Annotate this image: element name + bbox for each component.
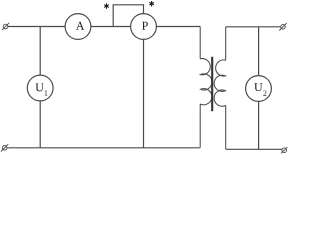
ammeter A (65, 14, 91, 40)
wattmeter voltage-coil bracket (113, 5, 143, 27)
voltmeter U1 (27, 75, 53, 101)
polarity mark right (149, 1, 154, 6)
bottom-right rail (226, 148, 282, 150)
wire secondary top to terminal (226, 26, 281, 28)
label U1 subscript (45, 90, 48, 95)
terminal bottom-right (281, 147, 287, 153)
wire U2 branch top (258, 27, 260, 76)
wire ammeter to wattmeter (91, 26, 130, 28)
wire U2 bottom (258, 101, 260, 149)
transformer core (211, 57, 213, 111)
wire wattmeter voltage coil to bottom rail (143, 39, 145, 148)
label P (142, 22, 148, 30)
terminal top-right (279, 23, 286, 30)
transformer secondary winding L2 (214, 27, 226, 150)
transformer primary winding L1 (200, 27, 212, 148)
wire top-left to ammeter (8, 26, 65, 28)
wire wattmeter to transformer primary (157, 26, 201, 28)
terminal top-left (2, 23, 9, 30)
bottom-left rail (7, 147, 200, 149)
label U2 letter (254, 83, 262, 91)
label A (76, 22, 84, 30)
wire U1 bottom (39, 101, 41, 148)
wattmeter P (131, 14, 157, 40)
polarity mark left (104, 3, 109, 8)
label U2 subscript (263, 91, 266, 96)
terminal bottom-left (1, 144, 8, 151)
label U1 letter (35, 83, 43, 91)
wire U1 branch top (39, 27, 41, 76)
voltmeter U2 (246, 76, 272, 102)
